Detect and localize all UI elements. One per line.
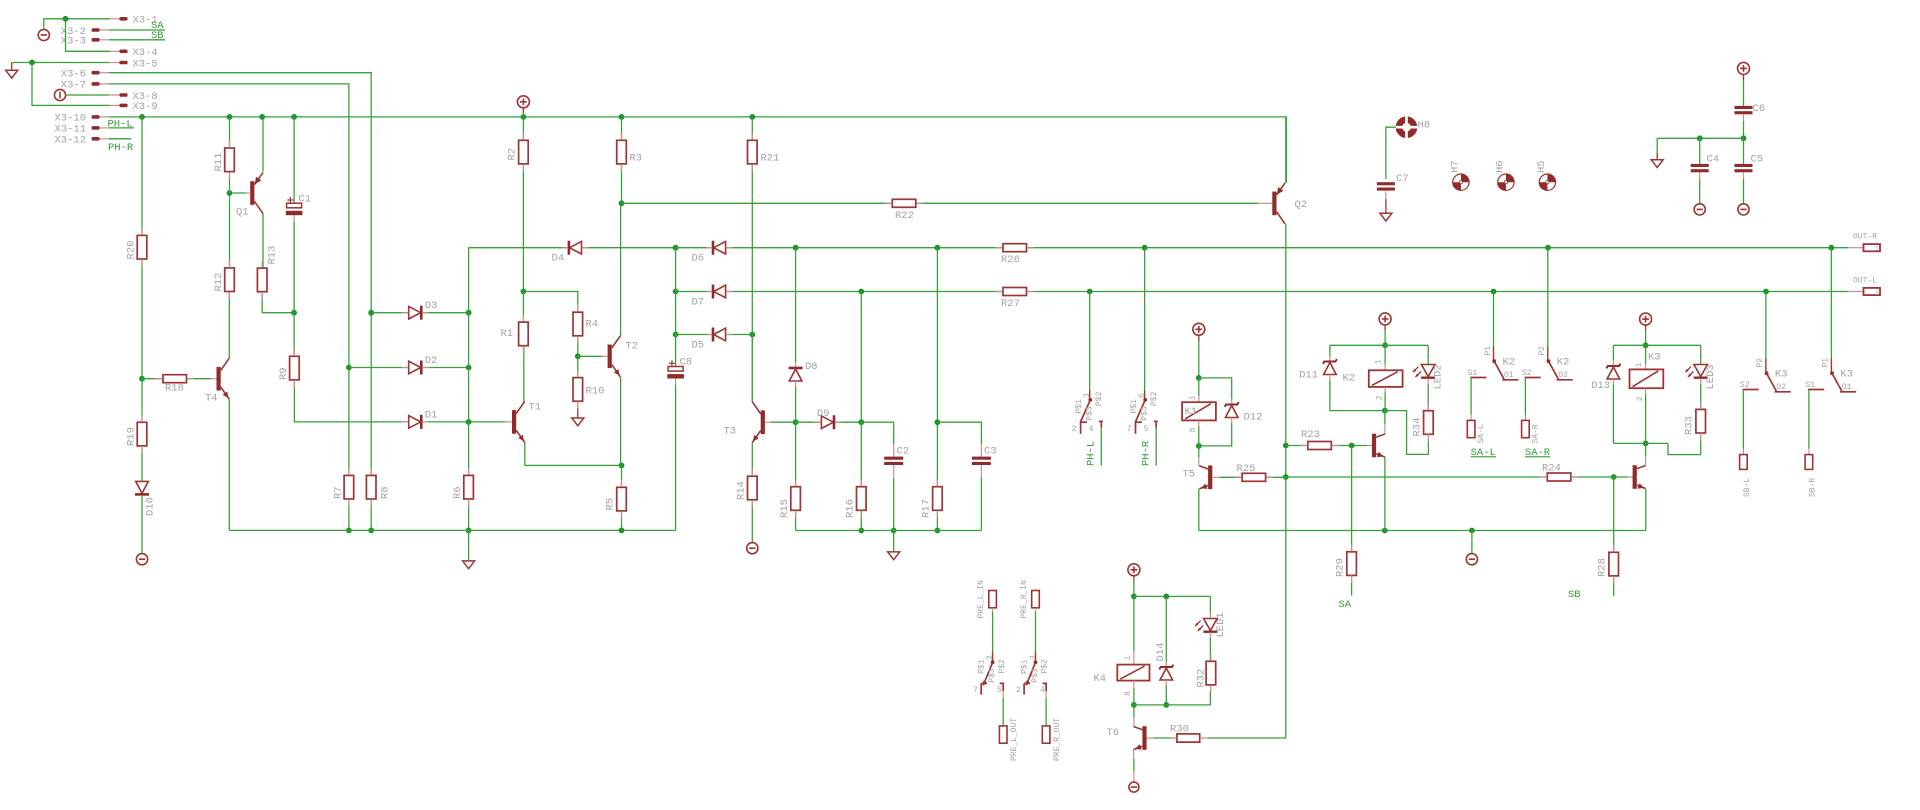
svg-text:T4: T4 — [205, 392, 218, 404]
svg-text:S2: S2 — [1740, 381, 1750, 390]
svg-text:SA: SA — [1339, 599, 1352, 611]
svg-text:5: 5 — [1144, 425, 1149, 434]
svg-text:P1: P1 — [1484, 346, 1493, 356]
svg-text:3: 3 — [1029, 655, 1038, 660]
svg-text:R9: R9 — [278, 367, 290, 380]
svg-text:Q1: Q1 — [236, 207, 249, 219]
svg-text:O2: O2 — [1558, 371, 1568, 380]
svg-text:R19: R19 — [126, 427, 138, 446]
svg-text:K1: K1 — [1185, 406, 1198, 418]
svg-text:R29: R29 — [1335, 558, 1347, 577]
svg-text:8: 8 — [1124, 691, 1133, 696]
svg-text:H7: H7 — [1450, 160, 1462, 173]
svg-text:6: 6 — [1138, 393, 1147, 398]
svg-text:D7: D7 — [692, 296, 705, 308]
svg-text:R32: R32 — [1195, 669, 1207, 688]
svg-text:C4: C4 — [1707, 154, 1720, 166]
svg-text:X3-4: X3-4 — [133, 47, 158, 59]
svg-text:4: 4 — [1040, 686, 1045, 695]
svg-text:R17: R17 — [921, 499, 933, 518]
svg-text:R14: R14 — [736, 481, 748, 500]
svg-text:C5: C5 — [1751, 154, 1764, 166]
svg-text:K2: K2 — [1343, 373, 1356, 385]
svg-text:2: 2 — [1016, 686, 1021, 695]
svg-text:R24: R24 — [1542, 463, 1561, 475]
svg-text:P$3: P$3 — [1031, 668, 1040, 683]
svg-text:O1: O1 — [1504, 371, 1514, 380]
svg-text:S1: S1 — [1805, 381, 1815, 390]
svg-text:P2: P2 — [1538, 346, 1547, 356]
svg-text:D6: D6 — [692, 253, 705, 265]
svg-text:P1: P1 — [1822, 358, 1831, 368]
svg-text:LED3: LED3 — [1705, 364, 1717, 389]
svg-text:K3: K3 — [1648, 351, 1661, 363]
svg-text:R25: R25 — [1237, 463, 1256, 475]
svg-text:D9: D9 — [817, 408, 830, 420]
svg-text:D12: D12 — [1244, 412, 1263, 424]
svg-text:PH-R: PH-R — [1141, 440, 1153, 466]
svg-text:R7: R7 — [333, 486, 345, 499]
svg-text:PRE_R_IN: PRE_R_IN — [1020, 580, 1029, 619]
svg-text:5: 5 — [997, 686, 1002, 695]
svg-text:K4: K4 — [1094, 673, 1107, 685]
svg-text:P2: P2 — [1756, 358, 1765, 368]
svg-text:H5: H5 — [1536, 160, 1548, 173]
svg-text:7: 7 — [1127, 425, 1132, 434]
svg-text:O2: O2 — [1776, 383, 1786, 392]
svg-text:PH-R: PH-R — [108, 142, 134, 154]
svg-text:P$1: P$1 — [978, 659, 987, 674]
svg-text:R5: R5 — [605, 498, 617, 511]
svg-text:R20: R20 — [126, 241, 138, 260]
svg-text:SB: SB — [1568, 589, 1581, 601]
svg-text:P$1: P$1 — [1021, 659, 1030, 674]
svg-text:K2: K2 — [1557, 357, 1570, 369]
svg-text:P$2: P$2 — [998, 659, 1007, 674]
svg-text:T1: T1 — [529, 401, 542, 413]
svg-text:R1: R1 — [501, 328, 514, 340]
svg-text:X3-8: X3-8 — [133, 91, 158, 103]
svg-text:SA-L: SA-L — [1477, 424, 1486, 443]
svg-text:D8: D8 — [805, 361, 818, 373]
svg-text:SB-L: SB-L — [1743, 478, 1752, 497]
svg-text:X3-3: X3-3 — [61, 36, 86, 48]
svg-text:X3-12: X3-12 — [54, 135, 86, 147]
svg-text:2: 2 — [1636, 396, 1645, 401]
svg-text:R21: R21 — [761, 153, 780, 165]
svg-text:X3-9: X3-9 — [133, 101, 158, 113]
svg-text:T2: T2 — [626, 340, 639, 352]
svg-text:SB: SB — [151, 30, 164, 42]
svg-text:3: 3 — [1083, 393, 1092, 398]
svg-text:4: 4 — [1089, 425, 1094, 434]
svg-text:2: 2 — [1375, 395, 1384, 400]
svg-text:P$1: P$1 — [1130, 399, 1139, 414]
svg-text:R28: R28 — [1597, 558, 1609, 577]
svg-text:LED2: LED2 — [1433, 364, 1445, 389]
svg-text:R13: R13 — [267, 246, 279, 265]
svg-text:PRE_R_OUT: PRE_R_OUT — [1053, 718, 1062, 761]
svg-text:2: 2 — [1072, 425, 1077, 434]
svg-text:D14: D14 — [1155, 643, 1167, 662]
svg-text:Q2: Q2 — [1295, 199, 1308, 211]
svg-text:1: 1 — [1375, 359, 1384, 364]
svg-text:R30: R30 — [1170, 724, 1189, 736]
svg-text:S2: S2 — [1522, 369, 1532, 378]
svg-text:C8: C8 — [680, 357, 693, 369]
svg-text:D3: D3 — [425, 300, 438, 312]
svg-text:X3-6: X3-6 — [61, 69, 86, 81]
svg-text:T5: T5 — [1183, 468, 1196, 480]
svg-text:PRE_L_IN: PRE_L_IN — [977, 580, 986, 619]
svg-text:R11: R11 — [213, 153, 225, 172]
svg-text:P$1: P$1 — [1075, 399, 1084, 414]
svg-text:R22: R22 — [895, 210, 914, 222]
svg-text:R2: R2 — [507, 148, 519, 161]
svg-text:R34: R34 — [1412, 418, 1424, 437]
svg-text:PH-L: PH-L — [108, 118, 133, 130]
svg-text:R33: R33 — [1684, 416, 1696, 435]
svg-text:PH-L: PH-L — [1086, 441, 1098, 466]
svg-text:R10: R10 — [586, 386, 605, 398]
svg-text:X3-7: X3-7 — [61, 80, 86, 92]
svg-text:T6: T6 — [1107, 727, 1120, 739]
svg-text:D13: D13 — [1591, 380, 1610, 392]
svg-text:C3: C3 — [984, 445, 997, 457]
svg-text:R12: R12 — [213, 273, 225, 292]
svg-text:K3: K3 — [1775, 369, 1788, 381]
svg-text:LED1: LED1 — [1215, 612, 1227, 637]
svg-text:R16: R16 — [845, 499, 857, 518]
svg-text:R3: R3 — [630, 153, 643, 165]
svg-text:D2: D2 — [425, 355, 438, 367]
svg-text:7: 7 — [973, 686, 978, 695]
svg-text:D5: D5 — [692, 339, 705, 351]
svg-text:2: 2 — [986, 655, 995, 660]
svg-text:PRE_L_OUT: PRE_L_OUT — [1010, 718, 1019, 761]
svg-text:T3: T3 — [724, 425, 737, 437]
svg-text:8: 8 — [1189, 427, 1198, 432]
svg-text:C6: C6 — [1753, 103, 1766, 115]
svg-text:H8: H8 — [1418, 120, 1431, 132]
svg-text:P$3: P$3 — [1140, 406, 1149, 421]
svg-text:R6: R6 — [452, 486, 464, 499]
svg-text:SB-R: SB-R — [1808, 478, 1817, 497]
svg-text:R23: R23 — [1301, 429, 1320, 441]
svg-text:X3-5: X3-5 — [133, 58, 158, 70]
svg-text:R27: R27 — [1001, 298, 1020, 310]
svg-text:R8: R8 — [380, 486, 392, 499]
svg-text:R15: R15 — [779, 499, 791, 518]
svg-text:K2: K2 — [1503, 357, 1516, 369]
svg-text:1: 1 — [1124, 656, 1133, 661]
svg-text:C1: C1 — [299, 194, 312, 206]
svg-text:R26: R26 — [1001, 254, 1020, 266]
svg-text:P$3: P$3 — [988, 668, 997, 683]
svg-text:H6: H6 — [1495, 160, 1507, 173]
svg-text:D10: D10 — [145, 497, 157, 516]
svg-text:C2: C2 — [897, 445, 910, 457]
svg-text:K3: K3 — [1840, 369, 1853, 381]
svg-text:P$2: P$2 — [1150, 391, 1159, 406]
svg-text:OUT-L: OUT-L — [1853, 276, 1877, 285]
svg-text:1: 1 — [1875, 289, 1879, 297]
svg-text:P$2: P$2 — [1095, 391, 1104, 406]
svg-text:D11: D11 — [1299, 370, 1318, 382]
svg-text:D4: D4 — [552, 253, 565, 265]
svg-text:P$2: P$2 — [1041, 659, 1050, 674]
svg-text:SA-R: SA-R — [1531, 424, 1540, 443]
svg-text:1: 1 — [1635, 362, 1644, 367]
svg-text:R18: R18 — [165, 383, 184, 395]
svg-text:1: 1 — [1189, 395, 1198, 400]
svg-text:P$3: P$3 — [1086, 406, 1095, 421]
svg-text:C7: C7 — [1396, 173, 1409, 185]
svg-text:R4: R4 — [586, 319, 599, 331]
svg-text:D1: D1 — [425, 409, 438, 421]
svg-text:1: 1 — [1875, 246, 1879, 254]
svg-text:OUT-R: OUT-R — [1853, 233, 1877, 242]
svg-text:S1: S1 — [1468, 369, 1478, 378]
svg-text:O1: O1 — [1842, 383, 1852, 392]
